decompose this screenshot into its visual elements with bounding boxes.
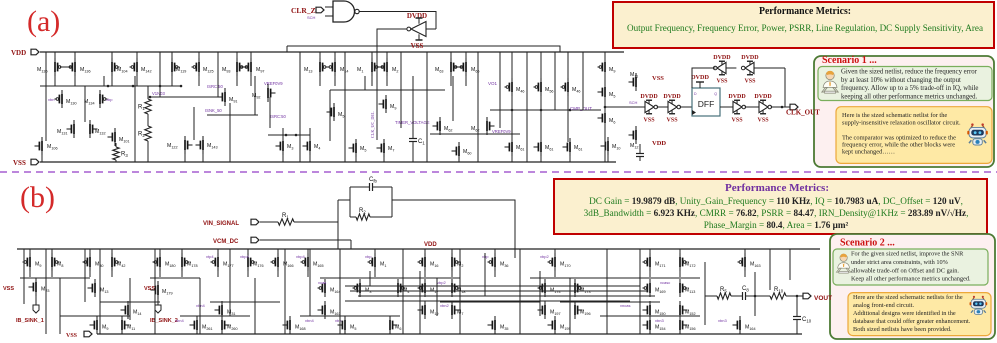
svg-text:supply-insensitive relaxation: supply-insensitive relaxation oscillator… [842,120,961,127]
svg-text:VSS: VSS [667,117,679,123]
svg-text:Phase_Margin = 80.4, Area = 1.: Phase_Margin = 80.4, Area = 1.76 μm² [704,220,849,230]
svg-text:VDD: VDD [11,49,26,57]
svg-text:VREF0V9: VREF0V9 [264,81,283,86]
svg-text:R2: R2 [138,132,145,138]
svg-text:IB_SINK_2: IB_SINK_2 [150,318,178,324]
svg-text:TIMER_VOLTAGE: TIMER_VOLTAGE [395,120,430,125]
svg-text:under strict area constraints,: under strict area constraints, with 10% [851,259,949,266]
svg-text:R2: R2 [359,208,366,214]
svg-text:Output Frequency, Frequency Er: Output Frequency, Frequency Error, Power… [627,23,984,34]
svg-text:vcas: vcas [318,280,326,285]
svg-text:vncas: vncas [620,303,630,308]
svg-text:DC Gain = 19.9879 dB, Unity_Ga: DC Gain = 19.9879 dB, Unity_Gain_Frequen… [589,196,963,206]
svg-text:Keep all other performance met: Keep all other performance metrics uncha… [851,276,971,283]
svg-text:DVDD: DVDD [754,94,772,100]
svg-text:VOUT: VOUT [814,295,832,302]
svg-text:vcasc: vcasc [660,280,670,285]
svg-text:DFF: DFF [698,99,715,109]
svg-text:vbn4: vbn4 [305,318,314,323]
svg-text:Performance Metrics:: Performance Metrics: [725,183,829,194]
svg-text:R1: R1 [138,105,145,111]
svg-text:V1N03: V1N03 [152,91,165,96]
svg-text:R3: R3 [121,152,128,158]
svg-text:VO1: VO1 [488,81,498,86]
svg-text:Performance Metrics:: Performance Metrics: [759,6,851,17]
svg-text:vbn2: vbn2 [440,303,449,308]
svg-text:VSS: VSS [3,286,14,292]
svg-text:VSS: VSS [411,42,424,50]
svg-text:The comparator was optimized t: The comparator was optimized to reduce t… [842,135,956,142]
svg-text:For the given sized netlist, i: For the given sized netlist, improve the… [851,251,964,258]
svg-text:Given the sized netlist, reduc: Given the sized netlist, reduce the freq… [841,68,978,75]
svg-text:IB_SINK_1: IB_SINK_1 [16,318,44,324]
svg-text:VDD: VDD [652,140,666,147]
svg-text:vbn: vbn [48,97,54,102]
svg-text:VSS: VSS [652,75,664,82]
svg-text:CLK_OUT: CLK_OUT [786,109,820,117]
svg-text:VSS: VSS [13,159,26,167]
svg-text:Scenario 1 ...: Scenario 1 ... [822,55,877,66]
svg-text:vbp4: vbp4 [296,254,305,259]
svg-text:frequency error, while the oth: frequency error, while the other blocks … [842,142,955,149]
svg-text:keeping all other performance: keeping all other performance metrics un… [841,94,978,101]
svg-text:VSS: VSS [758,117,770,123]
svg-text:VIN_SIGNAL: VIN_SIGNAL [203,221,239,227]
svg-text:analog front-end circuit.: analog front-end circuit. [853,302,914,309]
svg-text:vtp4: vtp4 [206,254,214,259]
svg-text:(a): (a) [27,5,60,38]
svg-text:C10: C10 [802,317,812,323]
svg-text:database that could offer grea: database that could offer greater enhanc… [853,318,971,325]
svg-text:vbp4: vbp4 [240,254,249,259]
svg-text:DVDD: DVDD [691,74,709,81]
svg-text:SCH: SCH [307,15,316,20]
svg-text:vbn3: vbn3 [718,318,727,323]
svg-text:Cfb: Cfb [369,177,378,183]
svg-text:SCH: SCH [629,100,638,105]
svg-text:frequency. Allow up to a 5% tr: frequency. Allow up to a 5% trade-off in… [841,85,978,92]
svg-text:Additional designs were identi: Additional designs were identified in th… [853,310,956,317]
svg-text:vbn3: vbn3 [655,318,664,323]
svg-text:vbn4: vbn4 [196,303,205,308]
svg-text:VDD: VDD [424,242,437,248]
svg-text:C8: C8 [742,286,749,292]
svg-text:DVDD: DVDD [713,55,731,61]
svg-text:DVDD: DVDD [407,12,427,20]
svg-text:Q: Q [714,92,717,96]
svg-text:vbp: vbp [106,97,113,102]
svg-text:allowable trade-off on Offset: allowable trade-off on Offset and DC gai… [851,267,959,274]
svg-text:by at least 10% without changi: by at least 10% without changing the out… [841,77,961,84]
svg-text:vbp2: vbp2 [437,280,446,285]
svg-text:R10: R10 [774,287,784,293]
svg-text:CLR_Z: CLR_Z [291,6,316,15]
svg-text:(b): (b) [20,181,55,214]
svg-text:DVDD: DVDD [663,94,681,100]
svg-text:ISNK_50: ISNK_50 [205,108,222,113]
svg-text:VSS: VSS [732,117,744,123]
svg-text:VSS: VSS [66,333,78,339]
svg-text:vbn4: vbn4 [175,318,184,323]
svg-text:DVDD: DVDD [728,94,746,100]
svg-text:C1: C1 [418,139,425,145]
svg-text:R1: R1 [282,213,289,219]
svg-text:ISRC:50: ISRC:50 [270,114,286,119]
svg-text:Scenario 2 ...: Scenario 2 ... [840,238,895,249]
svg-text:VSS: VSS [644,117,656,123]
svg-text:VSS: VSS [144,286,155,292]
svg-text:Both sized netlists have been: Both sized netlists have been provided. [853,326,952,333]
svg-text:VSS: VSS [744,78,756,84]
svg-text:Here is the sized schematic ne: Here is the sized schematic netlist for … [842,112,947,119]
svg-text:CLK_UC_DEL: CLK_UC_DEL [370,111,375,138]
svg-text:kept unchanged……: kept unchanged…… [842,149,895,156]
svg-text:DVDD: DVDD [741,55,759,61]
svg-text:VSS: VSS [716,78,728,84]
svg-text:CMP_OUT: CMP_OUT [570,106,592,111]
svg-text:3dB_Bandwidth = 6.923 KHz, CMR: 3dB_Bandwidth = 6.923 KHz, CMRR = 76.82,… [584,208,969,218]
svg-text:DVDD: DVDD [640,94,658,100]
svg-text:vbp2: vbp2 [540,254,549,259]
svg-text:VCM_DC: VCM_DC [213,239,239,245]
svg-text:VREF0V9: VREF0V9 [492,129,511,134]
svg-text:ISRC:50: ISRC:50 [207,84,223,89]
svg-text:vbp: vbp [482,254,489,259]
svg-text:vbp: vbp [365,254,372,259]
svg-text:Here are the sized schematic n: Here are the sized schematic netlists fo… [853,294,963,301]
svg-text:R5: R5 [720,287,727,293]
